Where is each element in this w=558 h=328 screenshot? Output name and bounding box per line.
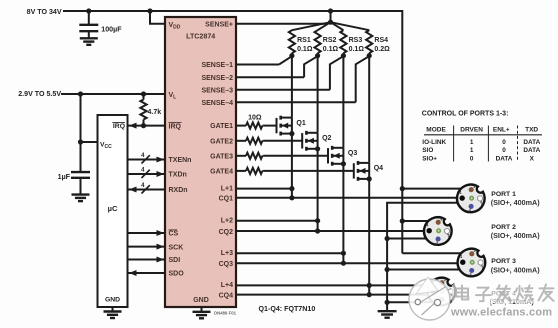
- svg-text:TXENn: TXENn: [169, 157, 192, 164]
- svg-text:IRQ: IRQ: [169, 123, 182, 130]
- junction supply/VDD: [147, 8, 152, 13]
- junction RS2 bottom: [315, 53, 320, 58]
- junction Q4/CQ4: [367, 292, 372, 297]
- wire Q4 source down: [368, 179, 370, 295]
- wire VDD drop: [150, 11, 165, 24]
- connector PORT 4: [428, 278, 456, 306]
- junction Q1/L+1: [289, 186, 294, 191]
- connector PORT 3: [458, 249, 486, 277]
- svg-text:Q3: Q3: [348, 150, 357, 157]
- resistor RG2: [236, 140, 246, 142]
- junction Q3/CQ3: [341, 261, 346, 266]
- svg-text:L+1: L+1: [221, 185, 233, 192]
- wire port2 L+ feed: [402, 220, 428, 222]
- wire SENSE-3: [236, 89, 330, 91]
- junction Q2/L+2: [315, 218, 320, 223]
- svg-text:0.1Ω: 0.1Ω: [349, 46, 365, 53]
- svg-text:RXDn: RXDn: [169, 187, 188, 194]
- ground below IC: [201, 307, 203, 312]
- svg-text:GATE1: GATE1: [210, 123, 233, 130]
- svg-text:TXD: TXD: [525, 127, 538, 134]
- wire SDO: [127, 272, 165, 274]
- microcontroller uC block: [98, 115, 128, 307]
- svg-text:Q4: Q4: [374, 165, 383, 172]
- wire supply right drop to port feeds: [401, 10, 403, 253]
- resistor RG1 10 ohm: [236, 125, 246, 127]
- svg-text:µC: µC: [108, 204, 118, 213]
- junction supply/SENSE+ fan: [328, 8, 333, 13]
- svg-text:0: 0: [470, 155, 474, 162]
- junction supply/C1: [86, 8, 91, 13]
- wire port3 L- feed: [387, 269, 460, 271]
- junction VL/VCC branch: [78, 91, 83, 96]
- IC U1 LTC2874: [165, 17, 236, 307]
- transistor Q3 FQT7N10: [327, 148, 329, 163]
- junction Q3/L+3: [341, 251, 346, 256]
- wire SENSE+: [236, 23, 327, 25]
- junction R1/IRQ: [141, 123, 146, 128]
- svg-text:L+4: L+4: [221, 282, 233, 289]
- svg-text:RS2: RS2: [323, 37, 337, 44]
- svg-text:CONTROL OF PORTS 1-3:: CONTROL OF PORTS 1-3:: [422, 110, 509, 117]
- ground below C2: [72, 193, 90, 195]
- svg-text:IO-LINK: IO-LINK: [422, 139, 446, 146]
- wire Q3 source down: [342, 164, 344, 263]
- wire Q3 drain from RS3: [342, 56, 344, 148]
- wire L+2: [236, 220, 318, 222]
- junction VL/R1: [141, 91, 146, 96]
- junction Q2/CQ2: [315, 228, 320, 233]
- capacitor C2 1uF: [71, 171, 90, 173]
- wire RXDn bus: [127, 189, 165, 191]
- wire SENSE-1: [236, 64, 279, 66]
- watermark elecfans logo: [409, 277, 450, 320]
- junction RS1 bottom: [289, 53, 294, 58]
- svg-text:Q1-Q4: FQT7N10: Q1-Q4: FQT7N10: [259, 305, 316, 313]
- svg-text:SENSE–4: SENSE–4: [201, 100, 233, 107]
- svg-text:0: 0: [502, 147, 506, 154]
- svg-text:0.1Ω: 0.1Ω: [297, 46, 313, 53]
- wire SENSE-2: [236, 76, 304, 78]
- svg-text:CQ3: CQ3: [219, 261, 234, 268]
- connector PORT 2: [424, 217, 452, 245]
- svg-text:TXDn: TXDn: [169, 172, 187, 179]
- wire CS: [127, 232, 165, 234]
- wire L+1: [236, 188, 292, 190]
- wire L- bus port1: [387, 203, 458, 303]
- transistor Q1 FQT7N10: [276, 118, 278, 133]
- svg-text:10Ω: 10Ω: [248, 115, 262, 122]
- wire port4 L- feed: [387, 301, 433, 303]
- svg-text:SDI: SDI: [169, 257, 181, 264]
- svg-text:DATA: DATA: [523, 139, 540, 146]
- svg-text:Q1: Q1: [296, 120, 305, 127]
- svg-text:CQ2: CQ2: [219, 229, 234, 236]
- svg-text:SCK: SCK: [169, 244, 184, 251]
- svg-text:DATA: DATA: [496, 155, 513, 162]
- wire Q2 source down: [317, 149, 319, 231]
- svg-text:0: 0: [502, 139, 506, 146]
- junction L-/port2: [385, 236, 390, 241]
- svg-text:CQ4: CQ4: [219, 292, 234, 299]
- junction supply/port1 L+: [400, 186, 405, 191]
- wire SDI: [127, 259, 165, 261]
- svg-text:CQ1: CQ1: [219, 196, 234, 203]
- resistor RG4: [236, 170, 246, 172]
- svg-text:100µF: 100µF: [101, 26, 122, 34]
- ground below C1: [80, 37, 98, 39]
- connector PORT 1: [457, 185, 485, 213]
- watermark text: [452, 282, 558, 305]
- svg-text:1: 1: [470, 147, 474, 154]
- svg-text:SIO+: SIO+: [422, 155, 437, 162]
- svg-text:1µF: 1µF: [58, 173, 71, 181]
- wire SCK: [127, 246, 165, 248]
- resistor RS2 0.1Ω: [318, 22, 331, 30]
- svg-text:MODE: MODE: [426, 127, 446, 134]
- svg-text:X: X: [530, 155, 535, 162]
- wire L+3: [236, 252, 343, 254]
- svg-text:SENSE+: SENSE+: [205, 21, 233, 28]
- wire CQ4 to port4: [236, 294, 429, 296]
- wire L+4 to port4: [236, 284, 430, 286]
- wire VCC to uC: [81, 141, 99, 143]
- svg-text:L+2: L+2: [221, 218, 233, 225]
- svg-text:www.elecfans.com: www.elecfans.com: [450, 306, 552, 318]
- ground L- bus: [386, 302, 388, 311]
- resistor R1 4.7k pull-up: [143, 94, 145, 100]
- wire port1 L+ feed: [402, 188, 461, 190]
- wire CQ2 to port2: [236, 230, 425, 232]
- svg-text:8V TO 34V: 8V TO 34V: [27, 8, 62, 16]
- ground below uC: [112, 307, 114, 312]
- svg-text:CS: CS: [169, 231, 179, 238]
- wire TXDn bus: [127, 173, 165, 175]
- table control of ports 1-3: [422, 110, 542, 162]
- svg-text:LTC2874: LTC2874: [186, 32, 215, 40]
- svg-text:(SIO+, 400mA): (SIO+, 400mA): [491, 231, 541, 240]
- junction RS4 bottom: [367, 53, 372, 58]
- svg-text:L+3: L+3: [221, 250, 233, 257]
- svg-text:1: 1: [470, 139, 474, 146]
- transistor Q4 FQT7N10: [353, 163, 355, 178]
- wire CQ1 to port1: [236, 197, 458, 199]
- svg-text:GATE2: GATE2: [210, 138, 233, 145]
- transistor Q2 FQT7N10: [301, 133, 303, 148]
- resistor RS4 0.2Ω: [331, 22, 370, 30]
- junction VCC/C2: [78, 139, 83, 144]
- junction Q4/L+4: [367, 283, 372, 288]
- wire supply rail top: [63, 10, 402, 12]
- svg-text:SENSE–3: SENSE–3: [201, 87, 233, 94]
- wire CQ3 to port3: [236, 262, 459, 264]
- svg-text:SDO: SDO: [169, 271, 185, 278]
- junction Q1/CQ1: [289, 195, 294, 200]
- svg-text:GND: GND: [105, 297, 120, 304]
- capacitor C1 100uF: [88, 11, 90, 25]
- svg-text:DN489 F01: DN489 F01: [214, 311, 237, 316]
- junction supply/port2 L+: [400, 218, 405, 223]
- junction RS3 bottom: [341, 53, 346, 58]
- svg-text:GATE3: GATE3: [210, 153, 233, 160]
- svg-text:SENSE–1: SENSE–1: [201, 62, 233, 69]
- wire port3 L+ feed: [402, 252, 462, 254]
- wire TXENn bus: [127, 159, 165, 161]
- junction L-/port4: [385, 300, 390, 305]
- wire Q4 drain from RS4: [368, 56, 370, 163]
- resistor RS3 0.1Ω: [331, 22, 344, 30]
- svg-text:RS3: RS3: [349, 37, 363, 44]
- svg-text:SIO: SIO: [422, 147, 433, 154]
- svg-text:2.9V TO 5.5V: 2.9V TO 5.5V: [18, 90, 61, 98]
- svg-text:ENL+: ENL+: [493, 127, 510, 134]
- svg-text:Q2: Q2: [322, 135, 331, 142]
- junction L-/port3: [385, 267, 390, 272]
- svg-text:RS1: RS1: [297, 37, 311, 44]
- svg-text:4.7k: 4.7k: [148, 109, 162, 116]
- svg-text:0.1Ω: 0.1Ω: [323, 46, 339, 53]
- svg-text:(SIO+, 400mA): (SIO+, 400mA): [491, 198, 541, 207]
- svg-text:SENSE–2: SENSE–2: [201, 75, 233, 82]
- wire VL line: [61, 93, 165, 95]
- wire port2 L- feed: [387, 238, 427, 240]
- svg-text:GATE4: GATE4: [210, 169, 233, 176]
- resistor RS1 0.1Ω: [292, 22, 331, 30]
- svg-text:PORT 3: PORT 3: [491, 258, 516, 265]
- resistor RG3: [236, 155, 246, 157]
- svg-text:IRQ: IRQ: [113, 123, 125, 130]
- svg-text:(SIO+, 400mA): (SIO+, 400mA): [491, 265, 541, 274]
- wire Q2 drain from RS2: [317, 56, 319, 133]
- svg-text:RS4: RS4: [374, 37, 388, 44]
- svg-text:DRVEN: DRVEN: [460, 127, 483, 134]
- svg-text:0.2Ω: 0.2Ω: [374, 46, 390, 53]
- wire VCC branch down: [80, 94, 82, 172]
- wire Q1 drain from RS1: [291, 56, 293, 118]
- wire IRQ: [127, 125, 165, 127]
- svg-text:GND: GND: [193, 297, 209, 304]
- wire SENSE-4: [236, 101, 356, 103]
- svg-text:DATA: DATA: [523, 147, 540, 154]
- wire Q1 source down: [291, 134, 293, 198]
